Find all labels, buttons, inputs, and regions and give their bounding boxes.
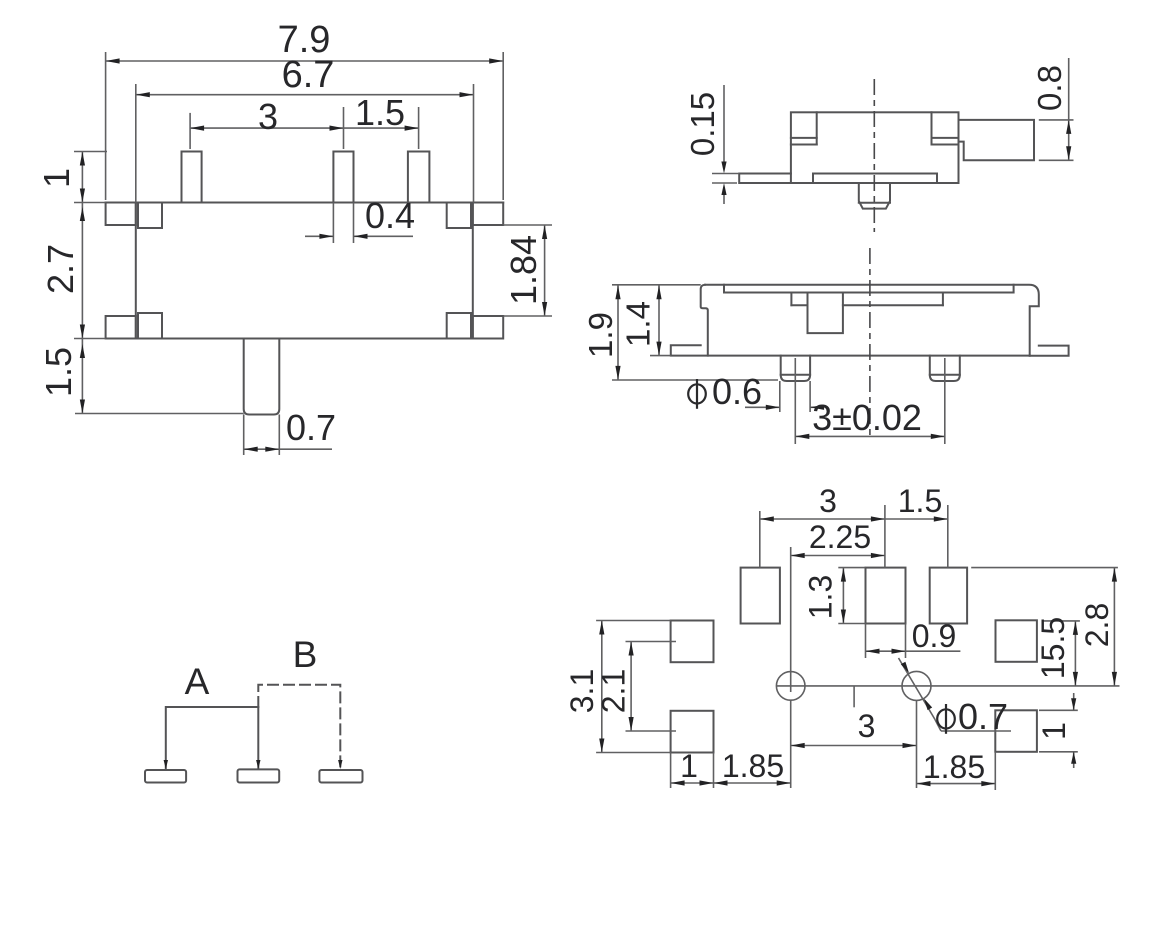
short stub below centre line <box>853 686 855 707</box>
mounting tab top-left <box>106 203 136 226</box>
svg-text:1.85: 1.85 <box>722 748 784 784</box>
svg-text:1.5: 1.5 <box>898 483 942 519</box>
dimension 1.5 pad pitch top <box>885 518 948 520</box>
side stem with chamfer <box>859 183 890 209</box>
dimension 3 +/- 0.02 peg pitch <box>794 358 796 444</box>
dimension 1 pin height <box>80 152 85 166</box>
svg-text:1.85: 1.85 <box>923 749 985 785</box>
side body outline <box>791 112 959 183</box>
svg-text:2.1: 2.1 <box>596 669 632 713</box>
right inner step <box>931 112 933 144</box>
dimension 2.8 pad to hole <box>1113 568 1115 686</box>
mounting tab bottom-left <box>106 316 136 339</box>
slider knob <box>959 120 1035 160</box>
svg-text:3: 3 <box>819 483 837 519</box>
dimension 1.85 pad to hole bottom left <box>790 700 792 788</box>
stem inner line <box>859 202 890 204</box>
left dimension chain line <box>81 152 83 414</box>
pad 5 <box>671 711 714 753</box>
mounting tab top-right <box>473 203 503 226</box>
pad 3 <box>930 568 967 624</box>
bottom view outline <box>701 285 708 356</box>
terminal pad 3 <box>319 770 362 783</box>
tooling hole left <box>776 672 805 701</box>
dimension 0.15 lead thickness <box>723 85 725 168</box>
svg-text:2.8: 2.8 <box>1079 603 1115 647</box>
position A contact path <box>166 707 258 768</box>
dimension phi 0.7 hole diameter leader <box>899 658 936 720</box>
locating peg left <box>781 356 810 381</box>
svg-text:15.5: 15.5 <box>1035 617 1071 679</box>
dimension 3 pin pitch <box>190 127 343 129</box>
bottom recess shelf <box>813 174 937 184</box>
dimension 0.8 knob height <box>1068 58 1070 160</box>
svg-text:A: A <box>185 661 210 702</box>
bottom locating stem <box>244 339 280 415</box>
dimension 6.7 body width <box>136 94 474 96</box>
dimension 1.3 pad height <box>842 568 844 624</box>
svg-text:2.25: 2.25 <box>809 519 871 555</box>
svg-text:1.9: 1.9 <box>582 312 619 358</box>
svg-text:0.4: 0.4 <box>365 195 415 236</box>
svg-text:0.7: 0.7 <box>286 407 336 448</box>
dimension 0.9 pad width <box>865 624 867 659</box>
centre contact pocket <box>790 293 792 305</box>
svg-text:0.9: 0.9 <box>912 618 956 654</box>
svg-text:3: 3 <box>258 96 278 137</box>
switch body outline <box>136 203 473 339</box>
bottom view centreline <box>869 248 871 437</box>
pad 1 <box>741 568 780 624</box>
svg-text:1: 1 <box>36 168 77 188</box>
hole centre line <box>776 685 1120 687</box>
svg-text:0.15: 0.15 <box>684 92 721 156</box>
frame notch bottom-right <box>447 313 471 339</box>
dimension 1.84 tab gap <box>544 225 546 316</box>
mounting tab bottom-right <box>473 316 503 339</box>
pad 6 <box>996 620 1037 662</box>
dimension phi 0.6 peg diameter <box>779 381 781 412</box>
dimension 1.9 overall height <box>617 285 619 380</box>
left solder lead <box>739 174 791 184</box>
dimension 15.5 pad to hole <box>1074 621 1076 686</box>
svg-text:1.5: 1.5 <box>355 92 405 133</box>
svg-text:1.4: 1.4 <box>619 301 656 347</box>
position B contact path (dashed) <box>258 685 340 768</box>
svg-text:0.7: 0.7 <box>958 696 1008 737</box>
dimension 1.4 body height <box>658 285 660 355</box>
svg-text:1: 1 <box>680 748 698 784</box>
terminal pad 1 <box>145 770 186 783</box>
stem bottom extension line <box>75 413 244 415</box>
dimension 1.5 pin pitch <box>344 127 419 129</box>
svg-text:6.7: 6.7 <box>282 54 335 96</box>
svg-text:1.5: 1.5 <box>38 347 79 397</box>
locating peg right <box>930 356 960 381</box>
dimension 2.7 body height <box>80 207 85 221</box>
svg-text:2.7: 2.7 <box>40 244 81 294</box>
dimension 3.1 side pads span <box>601 621 603 753</box>
dimension 1 pad height right <box>1039 709 1078 711</box>
svg-text:3±0.02: 3±0.02 <box>812 397 922 438</box>
dimension 2.25 hole to pad <box>791 555 885 557</box>
svg-text:0.8: 0.8 <box>1031 65 1068 111</box>
frame notch bottom-left <box>138 313 162 339</box>
frame notch top-right <box>447 203 471 229</box>
dimension 3 pad pitch top <box>760 518 885 520</box>
terminal pin 2 <box>333 152 353 203</box>
terminal pad 2 (common) <box>238 769 280 782</box>
svg-text:1.3: 1.3 <box>803 575 839 619</box>
side view centreline <box>873 79 875 232</box>
pad 7 <box>995 710 1037 752</box>
dimension 1.85 hole to pad bottom right <box>994 752 996 790</box>
dimension 0.7 stem width <box>243 415 245 456</box>
dimension 7.9 overall width <box>106 60 504 62</box>
svg-text:3: 3 <box>858 708 876 744</box>
dimension 3 hole pitch <box>916 700 918 788</box>
svg-text:B: B <box>293 634 318 675</box>
recessed top strip <box>724 285 1014 293</box>
svg-text:1: 1 <box>1036 722 1072 740</box>
left mounting foot <box>671 345 1030 355</box>
svg-text:1.84: 1.84 <box>503 235 544 305</box>
dimension 2.1 side pad pitch <box>630 642 632 732</box>
dimension 0.4 pin width <box>332 203 334 244</box>
terminal pin 3 <box>408 152 430 203</box>
top cover line spanning full 7.9 width <box>106 202 504 204</box>
svg-text:0.6: 0.6 <box>712 371 762 412</box>
tooling hole right <box>902 671 931 700</box>
right mounting foot <box>1030 346 1069 356</box>
dimension 1.5 stem length <box>80 344 85 358</box>
frame notch top-left <box>138 203 162 229</box>
terminal pin 1 <box>182 152 202 203</box>
pad 2 <box>866 568 906 624</box>
pad 4 <box>671 621 714 663</box>
left inner step <box>816 112 818 144</box>
dimension 1 pad width bottom <box>670 753 672 789</box>
